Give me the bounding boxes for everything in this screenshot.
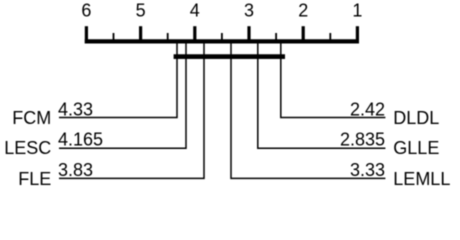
svg-text:LESC: LESC bbox=[4, 138, 51, 158]
svg-text:2.835: 2.835 bbox=[340, 129, 385, 149]
svg-text:DLDL: DLDL bbox=[393, 108, 439, 128]
GLLE connector line bbox=[258, 42, 386, 148]
svg-text:4.165: 4.165 bbox=[58, 129, 103, 149]
svg-text:FLE: FLE bbox=[18, 169, 51, 189]
major tick 2 bbox=[302, 26, 305, 43]
minor tick 3.5 bbox=[221, 33, 223, 44]
svg-text:3: 3 bbox=[244, 0, 254, 20]
minor tick 1.5 bbox=[329, 33, 331, 44]
critical difference bar bbox=[174, 54, 285, 59]
svg-text:3.83: 3.83 bbox=[58, 160, 93, 180]
critical-difference diagram bbox=[0, 0, 460, 190]
svg-text:4: 4 bbox=[190, 0, 200, 20]
svg-text:2.42: 2.42 bbox=[350, 99, 385, 119]
FCM connector line bbox=[59, 42, 177, 118]
LEMLL connector line bbox=[231, 42, 385, 178]
major tick 1 bbox=[356, 26, 359, 43]
svg-text:2: 2 bbox=[298, 0, 308, 20]
major tick 5 bbox=[139, 26, 142, 43]
axis line bbox=[85, 39, 359, 43]
svg-text:FCM: FCM bbox=[12, 108, 51, 128]
svg-text:5: 5 bbox=[136, 0, 146, 20]
major tick 4 bbox=[193, 26, 196, 43]
svg-text:6: 6 bbox=[81, 0, 91, 20]
FLE connector line bbox=[59, 42, 204, 178]
DLDL connector line bbox=[281, 42, 386, 118]
svg-text:4.33: 4.33 bbox=[58, 99, 93, 119]
minor tick 2.5 bbox=[275, 33, 277, 44]
major tick 6 bbox=[85, 26, 88, 43]
major tick 3 bbox=[247, 26, 250, 43]
minor tick 5.5 bbox=[113, 33, 115, 44]
svg-text:1: 1 bbox=[352, 0, 362, 20]
minor tick 4.5 bbox=[167, 33, 169, 44]
svg-text:GLLE: GLLE bbox=[393, 138, 439, 158]
svg-text:LEMLL: LEMLL bbox=[393, 169, 450, 189]
LESC connector line bbox=[59, 42, 186, 148]
svg-text:3.33: 3.33 bbox=[350, 160, 385, 180]
